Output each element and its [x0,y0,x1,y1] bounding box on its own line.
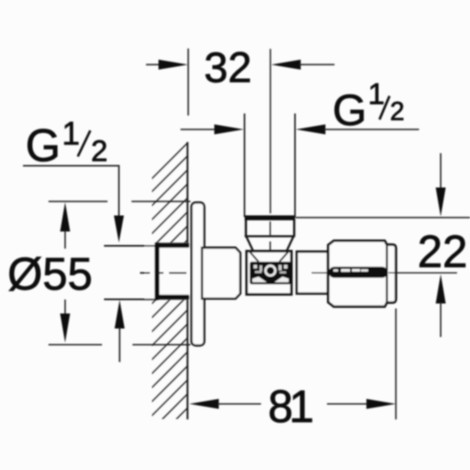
dim 32: left extension line [187,49,189,116]
G1/2 left: lower arrow (up onto inlet bottom) [115,300,125,329]
svg-text:Ø55: Ø55 [8,248,93,299]
dim 22: down arrow [440,153,442,189]
neck between flange and body [202,248,240,299]
dim G1/2 top: left arrow [181,128,217,130]
wall hatching [146,143,188,470]
dim 81: left arrow [189,399,219,409]
dim 32: right arrow [271,60,301,70]
centerline stem-knob [312,272,328,274]
dim 81: right extension line (knob back) [395,309,397,420]
dim 22: up arrow [436,274,446,303]
svg-text:1: 1 [62,116,80,152]
wall line [187,142,189,419]
knob outline [328,241,396,307]
knob slot (dark groove) [329,267,388,278]
knob back step lines [386,245,388,303]
svg-text:1: 1 [368,78,385,111]
dim O55: top extension line [49,200,108,202]
centerline dash in cone [269,242,271,252]
flange (escutcheon) [192,203,205,346]
centerline through inlet (dash-dot) [140,272,187,274]
valve body [247,251,292,294]
dim 22: top extension line (from nut corner) [296,217,470,219]
cone trapezoid right side [287,236,294,251]
svg-text:G: G [26,120,61,171]
logo highlight ring [266,266,276,276]
logo letter marks [254,265,257,269]
svg-text:81: 81 [268,381,312,432]
dim O55: bottom extension line [49,344,103,346]
GROHE logo plate [250,262,291,284]
stem between body and knob [297,252,328,294]
svg-text:G: G [333,86,367,135]
inlet pipe thin outline (G 1/2 male thread, behind wall) [104,245,158,247]
inlet bold thread block [155,243,190,248]
union nut side lines [245,219,247,236]
dim 32: left arrow [146,64,160,66]
inlet pipe white zone [145,243,189,300]
union nut bottom line [245,235,295,237]
svg-text:2: 2 [91,135,108,168]
union nut bold top bar [245,215,295,220]
centerline dash in nut [269,222,271,237]
dim G1/2 top: right arrow [296,124,326,134]
svg-text:32: 32 [204,44,252,92]
logo bottom wedges [252,277,266,283]
cone trapezoid left side [246,236,253,251]
body V-notch right [279,252,288,262]
dim 81: right arrow [327,403,367,405]
centerline right of knob (22 lower bound) [389,272,458,274]
dim O55: up arrow [60,202,70,231]
label G1/2 left: leader underline and bend [23,166,119,217]
label G1/2 left: down arrowhead onto inlet top [114,216,124,243]
top outlet centerline / 32 right extension [269,49,271,214]
dim O55: down arrow [64,300,66,316]
svg-text:2: 2 [390,96,404,126]
top outlet pipe side lines [244,114,246,218]
body V-notch left [250,252,259,262]
svg-text:22: 22 [418,226,468,277]
